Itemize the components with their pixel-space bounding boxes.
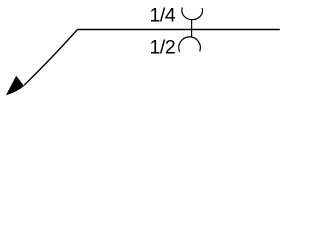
upper arc symbol (cup) (182, 8, 203, 20)
svg-text:1/4: 1/4 (150, 5, 176, 27)
tick through wire (191, 20, 193, 37)
svg-text:1/2: 1/2 (150, 37, 176, 59)
wire: horizontal line (78, 28, 280, 30)
wire: curved segment toward arrow (24, 30, 78, 86)
arrowhead (6, 76, 24, 96)
lower arc symbol (arch) (179, 37, 201, 52)
